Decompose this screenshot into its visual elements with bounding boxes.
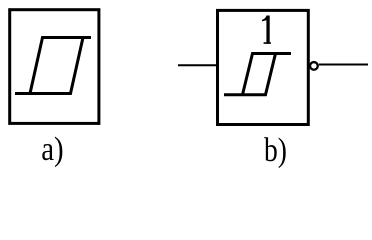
gate box a) (Schmitt trigger symbol outline): [10, 10, 99, 124]
hysteresis symbol in box a) : bottom line + right slant: [15, 38, 83, 94]
label a): [41, 130, 63, 168]
hysteresis symbol in box b) : bottom line + right slant: [224, 54, 276, 95]
label b): [264, 130, 287, 168]
input wire to gate b): [178, 64, 217, 66]
hysteresis symbol in box a) : left slant + top line: [30, 38, 91, 94]
output wire from gate b): [319, 64, 368, 66]
svg-text:b): b): [264, 130, 287, 168]
svg-text:a): a): [41, 130, 63, 168]
hysteresis symbol in box b) : left slant + top line: [243, 54, 292, 95]
gate box b) (Schmitt trigger logic symbol outline): [218, 10, 309, 124]
inversion bubble on output of gate b): [310, 62, 318, 70]
label 1 inside gate b): [262, 16, 271, 44]
